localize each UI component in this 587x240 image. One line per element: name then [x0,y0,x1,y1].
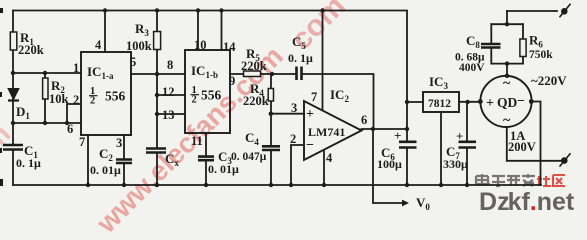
svg-text:14: 14 [223,40,236,54]
svg-text:13: 13 [162,108,175,122]
svg-text:C5: C5 [292,34,306,51]
svg-text:8: 8 [167,58,173,72]
svg-text:IC1-b: IC1-b [191,63,218,80]
svg-text:C4: C4 [245,130,259,147]
svg-text:6: 6 [67,122,73,136]
svg-text:220k: 220k [241,59,267,73]
svg-text:4: 4 [326,151,333,165]
svg-text:100μ: 100μ [377,157,402,171]
svg-text:−: − [306,138,314,153]
svg-text:C2: C2 [99,146,113,163]
svg-text:+: + [306,107,314,122]
svg-text:−: − [517,94,525,109]
svg-text:220k: 220k [18,43,44,57]
svg-text:+: + [394,128,401,143]
svg-text:7: 7 [79,135,85,149]
svg-text:2: 2 [290,132,296,146]
svg-text:+: + [486,96,494,111]
svg-text:QD: QD [497,95,518,110]
svg-text:7812: 7812 [428,98,451,110]
svg-text:0. 01μ: 0. 01μ [90,163,121,177]
svg-text:0. 01μ: 0. 01μ [208,162,239,176]
svg-text:9: 9 [229,74,235,88]
svg-text:~: ~ [503,76,511,91]
svg-text:12: 12 [162,85,175,99]
svg-text:556: 556 [201,88,222,103]
svg-text:5: 5 [130,55,136,69]
svg-text:6: 6 [361,113,367,127]
svg-text:200V: 200V [508,140,536,154]
svg-text:LM741: LM741 [308,125,345,139]
svg-text:1: 1 [73,61,79,75]
svg-text:0. 1μ: 0. 1μ [16,156,41,170]
svg-text:IC2: IC2 [330,87,349,104]
svg-text:~: ~ [503,113,511,128]
svg-text:330μ: 330μ [443,157,468,171]
svg-text:100k: 100k [126,39,152,53]
svg-text:D1: D1 [16,104,30,121]
svg-text:Cx: Cx [165,151,179,168]
svg-text:+: + [456,129,463,144]
svg-text:V0: V0 [416,195,430,212]
svg-text:2: 2 [192,95,197,106]
svg-text:220k: 220k [243,94,269,108]
svg-text:IC3: IC3 [429,74,448,91]
svg-text:2: 2 [73,93,79,107]
svg-text:750k: 750k [529,49,553,61]
svg-text:3: 3 [291,101,297,115]
svg-text:10: 10 [194,38,207,52]
svg-text:~220V: ~220V [531,73,567,88]
svg-text:R3: R3 [135,21,149,38]
svg-text:11: 11 [191,134,203,148]
svg-text:0. 1μ: 0. 1μ [288,51,313,65]
svg-text:7: 7 [311,90,317,104]
svg-text:556: 556 [105,89,126,104]
svg-text:10k: 10k [49,92,69,106]
svg-text:2: 2 [90,96,95,107]
svg-text:IC1-a: IC1-a [87,64,114,81]
svg-text:400V: 400V [459,62,485,74]
svg-text:R6: R6 [529,33,543,50]
svg-text:4: 4 [95,38,102,52]
svg-text:C8: C8 [466,33,480,50]
svg-text:3: 3 [116,136,122,150]
